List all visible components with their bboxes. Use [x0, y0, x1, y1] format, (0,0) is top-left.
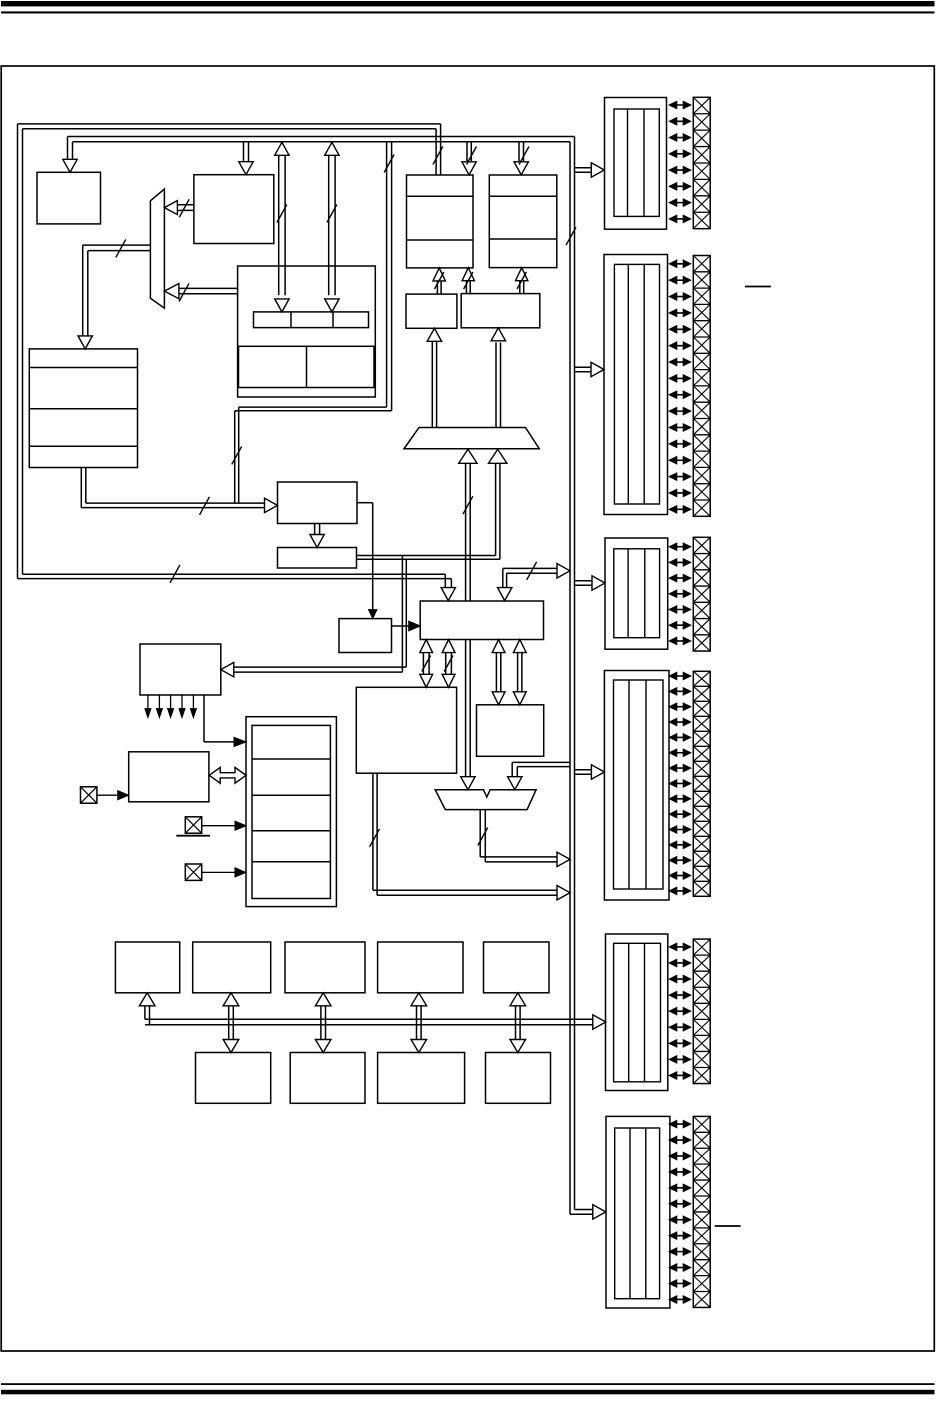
wire: BoxA down to stack (BoxB)	[315, 524, 320, 536]
open arrow into mux M1 (upper)	[164, 201, 177, 215]
block BoxF (timer/oscillator block)	[129, 752, 209, 802]
wire: BoxB up to mux T2	[496, 462, 500, 559]
port PORT4 driver block	[604, 671, 669, 901]
open arrow BoxG output into port bus	[557, 886, 570, 900]
pin pad column (I/O cells) for PORT4	[693, 671, 710, 896]
slash on long arrow 1	[277, 205, 287, 223]
note dash near PORT6	[715, 1225, 741, 1227]
pin arrows (bidirectional) for PORT1	[669, 101, 691, 222]
block Box3c (program counter high latch)	[406, 294, 457, 328]
open arrow into Box1	[63, 159, 77, 172]
port PORT6 driver block	[606, 1116, 670, 1308]
bus: mux M1 output to FSR block (Box5)	[83, 245, 151, 336]
pin arrows (bidirectional) for PORT5	[669, 943, 691, 1079]
open arrow into ALU right input	[508, 777, 522, 790]
open arrow into PORT6	[593, 1205, 606, 1219]
page footer thick rule	[1, 1390, 935, 1395]
block peripheral USART1	[196, 1053, 271, 1104]
block BoxG (RAM file registers)	[356, 687, 456, 773]
open arrow ALU output into port bus	[557, 852, 570, 866]
slash on Box3d-Box3b arrow	[517, 272, 526, 289]
note dash near PORT2	[745, 286, 771, 288]
pin arrows (bidirectional) for PORT3	[669, 543, 691, 645]
wire: Box3d to Box3a arrow	[466, 281, 470, 294]
filled arrow into stack (X2)	[235, 821, 246, 830]
wire: program bus drop to program counter block (Box2)	[244, 142, 249, 162]
slash on Box3a drop	[467, 147, 477, 165]
bus: data bus loop (left vertical + top run)	[18, 124, 441, 579]
slash on port bus	[566, 227, 576, 245]
open arrow (port-data) into BoxD top	[498, 588, 512, 601]
filled arrow into BoxC top	[369, 610, 377, 619]
slash on Box5 output	[200, 497, 210, 515]
wire: X2 to stack	[202, 825, 235, 827]
open arrow into mux M1 (lower)	[164, 284, 179, 299]
bus: peripheral/port bus (vertical)	[570, 137, 575, 1215]
slash on BoxD-BoxG arrow 2	[444, 656, 453, 672]
pin pad column (I/O cells) for PORT6	[693, 1116, 710, 1307]
wire: ALU output to port bus	[480, 810, 557, 862]
open arrow into Box3c bottom	[427, 328, 441, 341]
open down arrow 1 into cell row	[275, 299, 289, 312]
wire: BoxC to BoxD	[392, 625, 411, 627]
page header thin rule	[1, 11, 935, 13]
bidirectional open arrow BoxF-stack	[209, 767, 246, 783]
wire: program bus drop into instruction register (Box3b)	[519, 142, 524, 161]
register cell row (3 cells)	[254, 312, 369, 328]
mux M1 (register address mux)	[150, 189, 164, 308]
control signal arrows (5) from BoxE	[145, 695, 197, 718]
slash on M1 output bus	[116, 239, 126, 257]
open up arrow 1 to program bus	[275, 142, 289, 155]
port PORT5 driver block	[606, 934, 668, 1091]
wire: port bus to ALU right input	[512, 762, 570, 776]
wire: decode block to mux M1	[179, 288, 237, 293]
block peripheral USART2	[290, 1053, 365, 1104]
slash on main data bus	[170, 565, 180, 583]
slash on Box3d-Box3a arrow	[464, 272, 473, 289]
block peripheral SPI/I2C port	[486, 1053, 551, 1104]
double arrow peripheral bus to Timer2 and below	[223, 993, 239, 1053]
wire: BoxG output to port bus	[373, 773, 557, 895]
ALU U1 (arithmetic logic unit)	[435, 790, 536, 810]
block peripheral A/D converter	[378, 1053, 465, 1104]
block Box3a (ROM latch)	[407, 175, 474, 268]
slash on Box2-M1 wire	[179, 199, 189, 217]
block peripheral Timer2	[193, 942, 271, 993]
wire: Box3d to Box3b arrow	[520, 281, 524, 294]
open arrow from BoxD wire into T2 bottom	[459, 449, 477, 463]
open arrow (port-data) into port bus	[557, 564, 570, 578]
open arrow into BoxA	[265, 498, 278, 512]
block peripheral Timer1	[115, 942, 179, 993]
slash on instruction latch bus	[232, 446, 242, 464]
block BoxH (W register)	[477, 705, 544, 757]
pin pad column (I/O cells) for PORT1	[693, 97, 710, 228]
open arrow into Box2	[239, 162, 253, 175]
open down arrow 2 into cell row	[325, 299, 339, 312]
slash on long drop	[384, 155, 394, 173]
wire: BoxE output to peripheral stack	[204, 695, 234, 742]
wire: BoxB branch down to decode block (BoxE)	[233, 556, 406, 673]
wire: long vertical arrow 2 (program bus to cell row)	[329, 156, 335, 295]
double arrow BoxD-BoxG 2	[442, 640, 455, 688]
bus: main data bus (horizontal, bottom of loop)	[18, 574, 452, 588]
page header thick rule	[1, 1, 935, 6]
open arrow into Box3a bottom	[433, 268, 445, 281]
wire: port bus arrow into PORT1	[575, 163, 605, 177]
wire: T2 up to Box3c	[432, 341, 436, 427]
block peripheral Timer3	[285, 942, 365, 993]
filled arrow into stack (X3)	[235, 868, 246, 877]
open arrow into RAM address block (Box D) from main bus	[441, 588, 455, 601]
wire: program bus drop to oscillator block (Box1)	[68, 137, 73, 160]
port PORT1 driver block	[605, 98, 667, 230]
mux T2 (program memory address mux, trapezoid)	[404, 428, 539, 449]
pin pad X2 (T0CKI)	[185, 817, 201, 833]
block Box2 (program counter)	[194, 175, 274, 244]
wire: instruction latch bus (drop from container area, joins BoxA feed)	[235, 407, 239, 503]
block peripheral Capture/PWM2	[484, 942, 550, 993]
double arrow peripheral bus to Capture/PWM1 and below	[411, 993, 427, 1053]
active-low underline for X2	[176, 835, 210, 837]
port PORT3 driver block	[605, 538, 668, 649]
double arrow BoxD-BoxH 1	[492, 640, 505, 705]
open up arrow 2 to program bus	[325, 142, 339, 155]
slash on Box3b drop	[519, 147, 529, 165]
block BoxA (program counter latch)	[278, 482, 358, 524]
pin arrows (bidirectional) for PORT4	[669, 672, 691, 894]
open arrow into Box3d bottom	[491, 328, 505, 341]
wire: Box5 output down-right to program counter latch (BoxA)	[81, 468, 264, 508]
pin pad column (I/O cells) for PORT3	[693, 537, 710, 651]
slash on long arrow 2	[327, 205, 337, 223]
wire: BoxA right edge to literal latch (BoxC)	[357, 503, 373, 611]
wire: Box3c to Box3a arrow	[437, 281, 441, 293]
slash on port-data run	[527, 562, 537, 580]
wire: Box2 to mux M1	[178, 205, 194, 211]
wire: port bus arrow into PORT3	[575, 576, 606, 590]
block Box5 (FSR / file select registers)	[29, 349, 137, 468]
double arrow BoxD-BoxH 2	[513, 640, 526, 705]
slash on ALU output	[478, 828, 488, 846]
wire: BoxD down to ALU left input	[466, 640, 471, 777]
slash on data bus drop	[433, 147, 443, 165]
open arrow into Timer1	[139, 993, 155, 1006]
pin arrows (bidirectional) for PORT6	[669, 1120, 691, 1303]
bus: container-bottom horizontal run	[235, 407, 392, 411]
block stack of peripheral registers (outer)	[246, 717, 336, 907]
wire: program bus drop into ROM latch right (Box3a)	[467, 142, 471, 161]
block Box1 (oscillator/control)	[37, 172, 101, 224]
open arrow into Box3b	[514, 162, 528, 175]
open arrow into T2 bottom	[489, 449, 507, 463]
slash on BoxD-BoxG arrow 1	[422, 656, 431, 672]
wire: long vertical arrow 1 (program bus to cell row)	[279, 156, 285, 295]
slash on BoxG output	[370, 829, 380, 847]
block BoxD (RAM address / data latch)	[420, 601, 543, 640]
pin pad column (I/O cells) for PORT5	[693, 939, 710, 1083]
pin pad column (I/O cells) for PORT2	[693, 256, 710, 517]
open arrow into BoxB	[310, 535, 324, 548]
wire: T2 up to Box3d	[496, 342, 501, 427]
filled arrow into stack left edge	[234, 737, 246, 746]
block stack of peripheral registers (inner rows)	[252, 725, 330, 898]
bus: peripheral bus (horizontal)	[145, 1006, 594, 1025]
open arrow into Box3b bottom	[516, 268, 528, 281]
slash on T2-BoxD wire	[463, 496, 473, 514]
slash on decode-M1 wire	[179, 284, 189, 302]
bus: program bus (second horizontal bus)	[68, 137, 575, 142]
filled arrow into BoxF	[118, 791, 129, 800]
wire: X1 to BoxF	[97, 794, 117, 796]
slash on Box3c-Box3a arrow	[435, 272, 444, 289]
block BoxE (instruction decode & control)	[140, 644, 221, 695]
open arrow into BoxE right edge	[221, 662, 234, 676]
open arrow peripheral bus into PORT5	[593, 1015, 606, 1029]
block container (instruction decode & control)	[238, 266, 376, 397]
port PORT2 driver block	[604, 255, 668, 515]
block Box3d (table latch)	[461, 294, 540, 328]
pin pad X3 (MCLR)	[185, 864, 201, 880]
open arrow into Box3a	[462, 162, 476, 175]
block BoxB (stack)	[278, 548, 357, 569]
open arrow into Box3a bottom right	[462, 268, 474, 281]
filled arrow into BoxD left edge	[409, 621, 421, 631]
wire: X3 to stack	[202, 871, 235, 873]
double arrow peripheral bus to Timer3 and below	[315, 993, 331, 1053]
pin arrows (bidirectional) for PORT2	[669, 260, 691, 513]
block Box3b (instruction register)	[489, 175, 557, 268]
double arrow peripheral bus to Capture/PWM2 and below	[510, 993, 526, 1053]
pin pad X1 (OSC input)	[81, 787, 97, 803]
block two-cell box (control latches)	[239, 346, 375, 387]
double arrow BoxD-BoxG 1	[420, 640, 433, 688]
wire: program bus long drop (to instruction latch bus)	[387, 142, 392, 411]
block peripheral Capture/PWM1	[378, 942, 463, 993]
wire: port bus arrow into PORT4	[575, 765, 605, 779]
open arrow into Box5	[78, 336, 92, 349]
open arrow into ALU left input	[461, 777, 475, 790]
bus: port bus bottom turn into PORT6	[570, 1210, 594, 1215]
block BoxC (literal/IR latch)	[339, 619, 392, 653]
wire: port-data run (BoxD top to port bus)	[503, 568, 558, 588]
wire: port bus arrow into PORT2	[575, 362, 605, 376]
wire: BoxB right run	[357, 556, 500, 560]
wire: T2 down to RAM address block (BoxD top)	[466, 462, 471, 601]
page footer thin rule	[1, 1383, 935, 1385]
